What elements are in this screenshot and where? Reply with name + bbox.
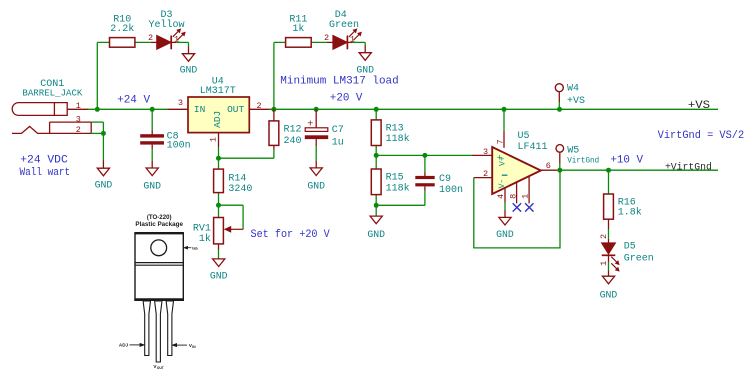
svg-text:ADJ: ADJ <box>212 111 223 128</box>
svg-text:GND: GND <box>600 289 618 300</box>
svg-text:OUT: OUT <box>227 104 244 115</box>
svg-text:+20 V: +20 V <box>330 93 363 105</box>
svg-text:OUT: OUT <box>157 366 165 370</box>
svg-text:R15: R15 <box>386 173 404 184</box>
svg-text:GND: GND <box>143 181 161 192</box>
svg-text:GND: GND <box>210 270 228 281</box>
svg-text:7: 7 <box>496 139 506 144</box>
svg-text:ADJ: ADJ <box>119 343 129 348</box>
svg-text:1k: 1k <box>292 23 304 35</box>
svg-text:LM317T: LM317T <box>200 86 236 97</box>
svg-text:LF411: LF411 <box>518 142 548 153</box>
svg-text:BARREL_JACK: BARREL_JACK <box>22 87 82 98</box>
svg-text:3: 3 <box>76 115 81 125</box>
svg-text:1: 1 <box>521 194 531 199</box>
svg-text:C7: C7 <box>332 125 344 136</box>
svg-text:GND: GND <box>180 64 198 75</box>
svg-text:VirtGnd: VirtGnd <box>567 156 599 166</box>
svg-text:GND: GND <box>95 180 113 191</box>
svg-text:2: 2 <box>148 33 153 43</box>
svg-text:8: 8 <box>508 194 518 199</box>
svg-text:GND: GND <box>367 229 385 240</box>
svg-text:IN: IN <box>194 104 205 115</box>
svg-text:D5: D5 <box>624 242 636 253</box>
svg-text:C9: C9 <box>439 174 451 185</box>
svg-text:+VS: +VS <box>688 100 711 112</box>
svg-text:1: 1 <box>599 261 609 266</box>
svg-text:2: 2 <box>76 125 81 135</box>
svg-text:Plastic Package: Plastic Package <box>135 221 183 228</box>
svg-text:2: 2 <box>324 33 329 43</box>
svg-text:100n: 100n <box>167 141 191 152</box>
svg-text:VirtGnd = VS/2: VirtGnd = VS/2 <box>658 130 745 142</box>
svg-text:tab: tab <box>192 246 198 250</box>
svg-text:IN: IN <box>192 345 196 349</box>
svg-text:2: 2 <box>599 234 609 239</box>
svg-text:+: + <box>307 118 313 130</box>
svg-text:3: 3 <box>178 98 183 108</box>
svg-text:Wall wart: Wall wart <box>20 167 71 179</box>
svg-text:1.8k: 1.8k <box>618 207 642 219</box>
svg-text:Minimum LM317 load: Minimum LM317 load <box>280 76 398 88</box>
svg-text:2: 2 <box>256 101 261 111</box>
svg-text:GND: GND <box>356 64 374 75</box>
svg-text:GND: GND <box>307 181 325 192</box>
svg-text:Green: Green <box>329 20 359 31</box>
svg-text:4: 4 <box>496 194 506 199</box>
svg-text:Yellow: Yellow <box>148 19 184 31</box>
svg-text:1u: 1u <box>332 138 344 149</box>
svg-text:GND: GND <box>496 229 514 240</box>
svg-text:W4: W4 <box>567 83 579 94</box>
svg-text:R13: R13 <box>386 123 404 134</box>
svg-text:6: 6 <box>546 161 551 171</box>
svg-text:3: 3 <box>483 147 488 157</box>
svg-text:R12: R12 <box>284 124 302 135</box>
svg-text:+10 V: +10 V <box>610 155 643 167</box>
svg-text:2: 2 <box>483 169 488 179</box>
svg-text:1: 1 <box>76 101 81 111</box>
svg-text:3240: 3240 <box>228 184 252 195</box>
svg-text:V+: V+ <box>499 156 508 166</box>
svg-text:Green: Green <box>624 254 654 265</box>
svg-text:+24 V: +24 V <box>117 94 150 106</box>
svg-text:2.2k: 2.2k <box>110 23 134 35</box>
svg-text:Set for +20 V: Set for +20 V <box>251 229 331 241</box>
svg-text:240: 240 <box>284 136 302 147</box>
svg-text:+24 VDC: +24 VDC <box>20 154 68 166</box>
svg-text:+VS: +VS <box>567 96 585 107</box>
svg-text:+VirtGnd: +VirtGnd <box>665 161 712 173</box>
svg-text:U5: U5 <box>518 131 530 142</box>
svg-text:V-: V- <box>498 179 507 189</box>
svg-text:1k: 1k <box>199 233 211 245</box>
svg-text:118k: 118k <box>386 182 410 194</box>
svg-text:R14: R14 <box>228 174 246 185</box>
svg-text:1: 1 <box>209 137 219 142</box>
svg-text:100n: 100n <box>439 185 463 196</box>
svg-text:118k: 118k <box>386 133 410 145</box>
svg-text:(TO-220): (TO-220) <box>147 214 172 221</box>
